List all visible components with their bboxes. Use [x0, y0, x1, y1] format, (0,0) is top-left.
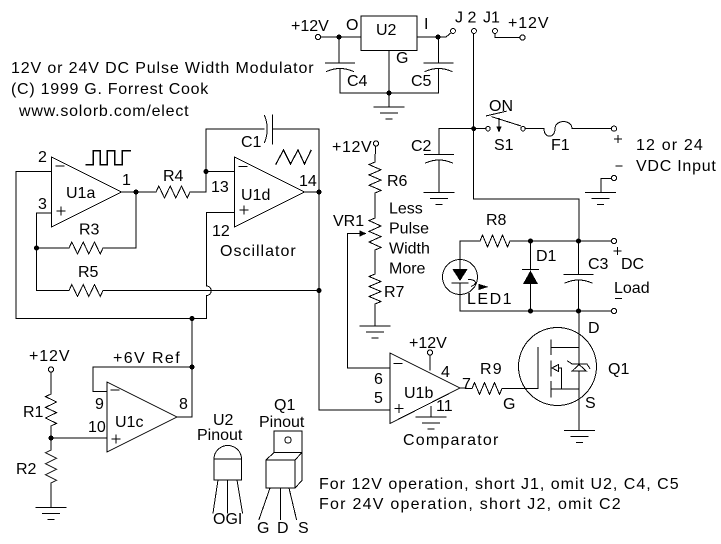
square wave symbol [86, 151, 130, 165]
svg-text:12V or 24V DC Pulse Width Modu: 12V or 24V DC Pulse Width Modulator [11, 60, 314, 77]
transistor Q1 [519, 328, 630, 406]
svg-text:R5: R5 [78, 264, 99, 281]
svg-text:+12V: +12V [29, 348, 70, 365]
regulator U2 [361, 16, 417, 51]
svg-text:G: G [503, 396, 515, 413]
op-amp U1a [52, 157, 122, 227]
wire source to ground [578, 389, 580, 431]
svg-text:D: D [588, 320, 600, 337]
wire load bottom rail [460, 310, 611, 312]
wire drain to load rail [578, 311, 580, 347]
ground U2 [374, 93, 404, 119]
svg-text:12: 12 [212, 223, 230, 240]
wire S1 to F1 [525, 128, 544, 130]
wire U1a pin2 feedback rail to +6V [16, 172, 207, 319]
junction R3 left [34, 246, 39, 251]
pin 4 [441, 364, 450, 381]
svg-text:8: 8 [179, 396, 188, 413]
note text [319, 476, 680, 513]
svg-text:3: 3 [38, 196, 47, 213]
svg-text:2: 2 [38, 149, 47, 166]
svg-text:U2: U2 [376, 22, 397, 39]
node +12V terminal above R1 [29, 348, 70, 372]
capacitor C2 [411, 129, 454, 193]
pin 7 [462, 376, 471, 393]
node DC load - terminal [611, 299, 621, 314]
svg-text:4: 4 [441, 364, 450, 381]
svg-text:Less: Less [389, 201, 423, 218]
svg-text:R1: R1 [23, 404, 44, 421]
svg-text:12 or 24: 12 or 24 [636, 137, 704, 154]
wire U1a output [122, 191, 157, 193]
wire U1d output down to U1b pin 5 [319, 192, 390, 410]
svg-text:U1b: U1b [404, 385, 433, 402]
svg-text:1: 1 [122, 172, 131, 189]
node DC input - terminal [611, 166, 622, 181]
node +12V regulator output terminal [291, 18, 329, 40]
svg-text:VR1: VR1 [333, 213, 364, 230]
svg-text:S1: S1 [494, 137, 514, 154]
ground C2 [424, 193, 454, 205]
svg-text:U1d: U1d [241, 187, 270, 204]
wire switch node down and over to load rail [474, 129, 579, 241]
svg-text:U1a: U1a [66, 185, 95, 202]
pin 12 [212, 223, 230, 240]
svg-text:VDC Input: VDC Input [636, 158, 717, 175]
label 12 or 24 VDC Input [636, 137, 717, 175]
wire switch node to S1 [476, 128, 486, 130]
svg-text:For 24V operation, short J2, o: For 24V operation, short J2, omit C2 [319, 496, 622, 513]
op-amp U1c [107, 382, 177, 452]
svg-text:Load: Load [614, 280, 650, 297]
svg-text:G: G [257, 520, 269, 537]
op-amp U1d [235, 157, 305, 227]
svg-text:(C) 1999 G. Forrest Cook: (C) 1999 G. Forrest Cook [11, 81, 209, 98]
resistor R2 [16, 450, 57, 508]
ground Q1 source [565, 431, 595, 443]
capacitor C3 [564, 241, 609, 311]
svg-text:C2: C2 [411, 138, 432, 155]
svg-text:14: 14 [299, 173, 317, 190]
svg-text:C4: C4 [347, 73, 368, 90]
svg-text:I: I [424, 16, 428, 33]
wire U1a pin3 [37, 213, 70, 291]
pin 10 [88, 419, 106, 436]
svg-text:C5: C5 [411, 73, 432, 90]
wire U2 I pin to J2 [417, 33, 451, 37]
svg-text:F1: F1 [551, 137, 570, 154]
pin 6 [374, 371, 383, 388]
resistor R8 [460, 212, 528, 247]
node DC input + terminal [611, 126, 621, 143]
svg-text:More: More [389, 261, 426, 278]
label G gate [503, 396, 515, 413]
label D drain [588, 320, 600, 337]
resistor R7 [369, 274, 405, 304]
jumper J1 [483, 10, 500, 34]
ground U1b pin 11 [416, 407, 446, 430]
svg-text:D1: D1 [536, 248, 557, 265]
svg-text:9: 9 [95, 396, 104, 413]
junction switch node [471, 126, 476, 131]
svg-text:R3: R3 [79, 222, 100, 239]
capacitor C1 [206, 115, 319, 192]
resistor R9 [460, 361, 538, 395]
wire C3 top to DC load + terminal [581, 240, 611, 242]
resistor R5 [69, 264, 319, 297]
junction D1 bottom [528, 309, 533, 314]
pin 13 [211, 179, 229, 196]
wire J2 down to switch node [473, 33, 475, 128]
resistor R4 [156, 168, 206, 198]
junction C4/O [337, 35, 342, 40]
label DC Load [614, 256, 650, 297]
diode D1 [523, 241, 557, 311]
wire U1c feedback loop to pin 9 [93, 367, 192, 392]
svg-text:S: S [585, 395, 596, 412]
svg-text:J 2: J 2 [455, 10, 476, 27]
svg-text:13: 13 [211, 179, 229, 196]
wire hop over R5 line [207, 286, 212, 296]
pin 2 [38, 149, 47, 166]
svg-text:R2: R2 [16, 461, 37, 478]
svg-text:C3: C3 [588, 256, 609, 273]
wire U1c output up to +6V rail [177, 416, 192, 418]
triangle wave symbol [276, 150, 311, 164]
pin label O [346, 17, 358, 34]
junction R1/R2/pin10 [49, 436, 54, 441]
svg-text:For 12V operation, short J1, o: For 12V operation, short J1, omit U2, C4… [319, 476, 680, 493]
ground R7 [360, 304, 390, 338]
svg-text:U1c: U1c [115, 414, 143, 431]
wire VR1 to R7 [374, 250, 376, 274]
svg-text:DC: DC [621, 256, 644, 273]
resistor R1 [23, 372, 57, 450]
wire pin 10 [51, 437, 107, 439]
svg-text:7: 7 [462, 376, 471, 393]
wire J1 to +12V terminal [495, 33, 520, 37]
svg-text:S: S [298, 520, 309, 537]
pin label I [424, 16, 428, 33]
svg-text:Q1: Q1 [608, 361, 629, 378]
node +12V supply terminal at J1 [508, 15, 549, 40]
svg-text:Oscillator: Oscillator [220, 243, 297, 260]
svg-text:www.solorb.com/elect: www.solorb.com/elect [18, 103, 189, 120]
capacitor C4 [326, 37, 368, 93]
svg-text:R7: R7 [384, 284, 405, 301]
svg-text:Pulse: Pulse [389, 221, 429, 238]
potentiometer VR1 [333, 213, 381, 250]
capacitor C5 [411, 37, 453, 93]
svg-text:+12V: +12V [508, 15, 549, 32]
wire +12V terminal to U2 O pin [321, 36, 361, 38]
svg-text:+6V Ref: +6V Ref [113, 350, 181, 367]
pin 14 [299, 173, 317, 190]
label +6V Ref [113, 350, 181, 367]
pin 1 [122, 172, 131, 189]
label ON [489, 98, 513, 115]
label S source [585, 395, 596, 412]
wire pin12 drop [207, 213, 235, 287]
U2 pinout diagram [197, 412, 243, 528]
svg-text:R4: R4 [163, 168, 184, 185]
junction U1c feedback [190, 365, 195, 370]
junction D1 top [528, 239, 533, 244]
pin 3 [38, 196, 47, 213]
svg-text:Width: Width [389, 241, 430, 258]
node DC load + terminal [611, 238, 621, 254]
svg-text:C1: C1 [241, 134, 262, 151]
wire D1 top to C3 top [533, 240, 576, 242]
Q1 pinout diagram [257, 397, 309, 537]
junction R5 to output column [317, 288, 322, 293]
label Comparator [403, 432, 499, 449]
svg-text:Comparator: Comparator [403, 432, 499, 449]
wire F1 to + input terminal [572, 128, 611, 130]
wire R6 to VR1 [374, 193, 376, 218]
junction ground rail [387, 91, 392, 96]
svg-text:O: O [346, 17, 358, 34]
junction +6V rail [190, 316, 195, 321]
pin label G [396, 50, 408, 67]
svg-text:10: 10 [88, 419, 106, 436]
svg-text:Pinout: Pinout [197, 427, 243, 444]
label Less Pulse Width More [389, 201, 430, 278]
svg-text:6: 6 [374, 371, 383, 388]
label Oscillator [220, 243, 297, 260]
junction U1d output [317, 190, 322, 195]
svg-text:5: 5 [374, 390, 383, 407]
junction C1/R4/pin13 [204, 169, 209, 174]
svg-text:G: G [396, 50, 408, 67]
switch S1 [486, 111, 525, 154]
resistor R3 [37, 192, 137, 254]
wire U1d output [305, 191, 320, 193]
op-amp U1b [390, 353, 460, 424]
wire +6V column [191, 319, 193, 418]
svg-text:+12V: +12V [409, 335, 447, 352]
junction C3 top [576, 239, 581, 244]
svg-text:OGI: OGI [213, 511, 242, 528]
pin 8 [179, 396, 188, 413]
pin 5 [374, 390, 383, 407]
junction C5/I [436, 35, 441, 40]
ground R2 [36, 508, 66, 520]
svg-text:+12V: +12V [332, 139, 372, 156]
ground DC input [586, 178, 616, 204]
svg-text:R8: R8 [486, 212, 507, 229]
svg-text:11: 11 [436, 398, 453, 415]
pin 11 [436, 398, 453, 415]
wire pin 13 stub [206, 171, 235, 173]
svg-text:+12V: +12V [291, 18, 329, 35]
pin 9 [95, 396, 104, 413]
resistor R6 [369, 146, 408, 193]
svg-text:ON: ON [489, 98, 513, 115]
wire switch node to C2 [439, 128, 474, 130]
fuse F1 [544, 122, 572, 154]
svg-text:J1: J1 [483, 10, 500, 27]
wire VR1 wiper down to U1b pin 6 [348, 234, 391, 369]
junction U1a output [134, 190, 139, 195]
svg-text:Q1: Q1 [274, 397, 295, 414]
jumper J2 [451, 10, 477, 34]
wire ground rail under U2 [340, 51, 439, 94]
svg-text:LED1: LED1 [467, 291, 513, 308]
junction C3 bottom [576, 309, 581, 314]
LED LED1 [443, 241, 514, 311]
svg-text:R9: R9 [480, 361, 503, 378]
svg-text:Pinout: Pinout [259, 414, 305, 431]
svg-text:D: D [277, 520, 289, 537]
node +12V terminal for U1b pin 4 [409, 335, 447, 370]
svg-text:R6: R6 [387, 173, 408, 190]
title text [11, 60, 314, 120]
node +12V terminal above R6 [332, 139, 379, 156]
